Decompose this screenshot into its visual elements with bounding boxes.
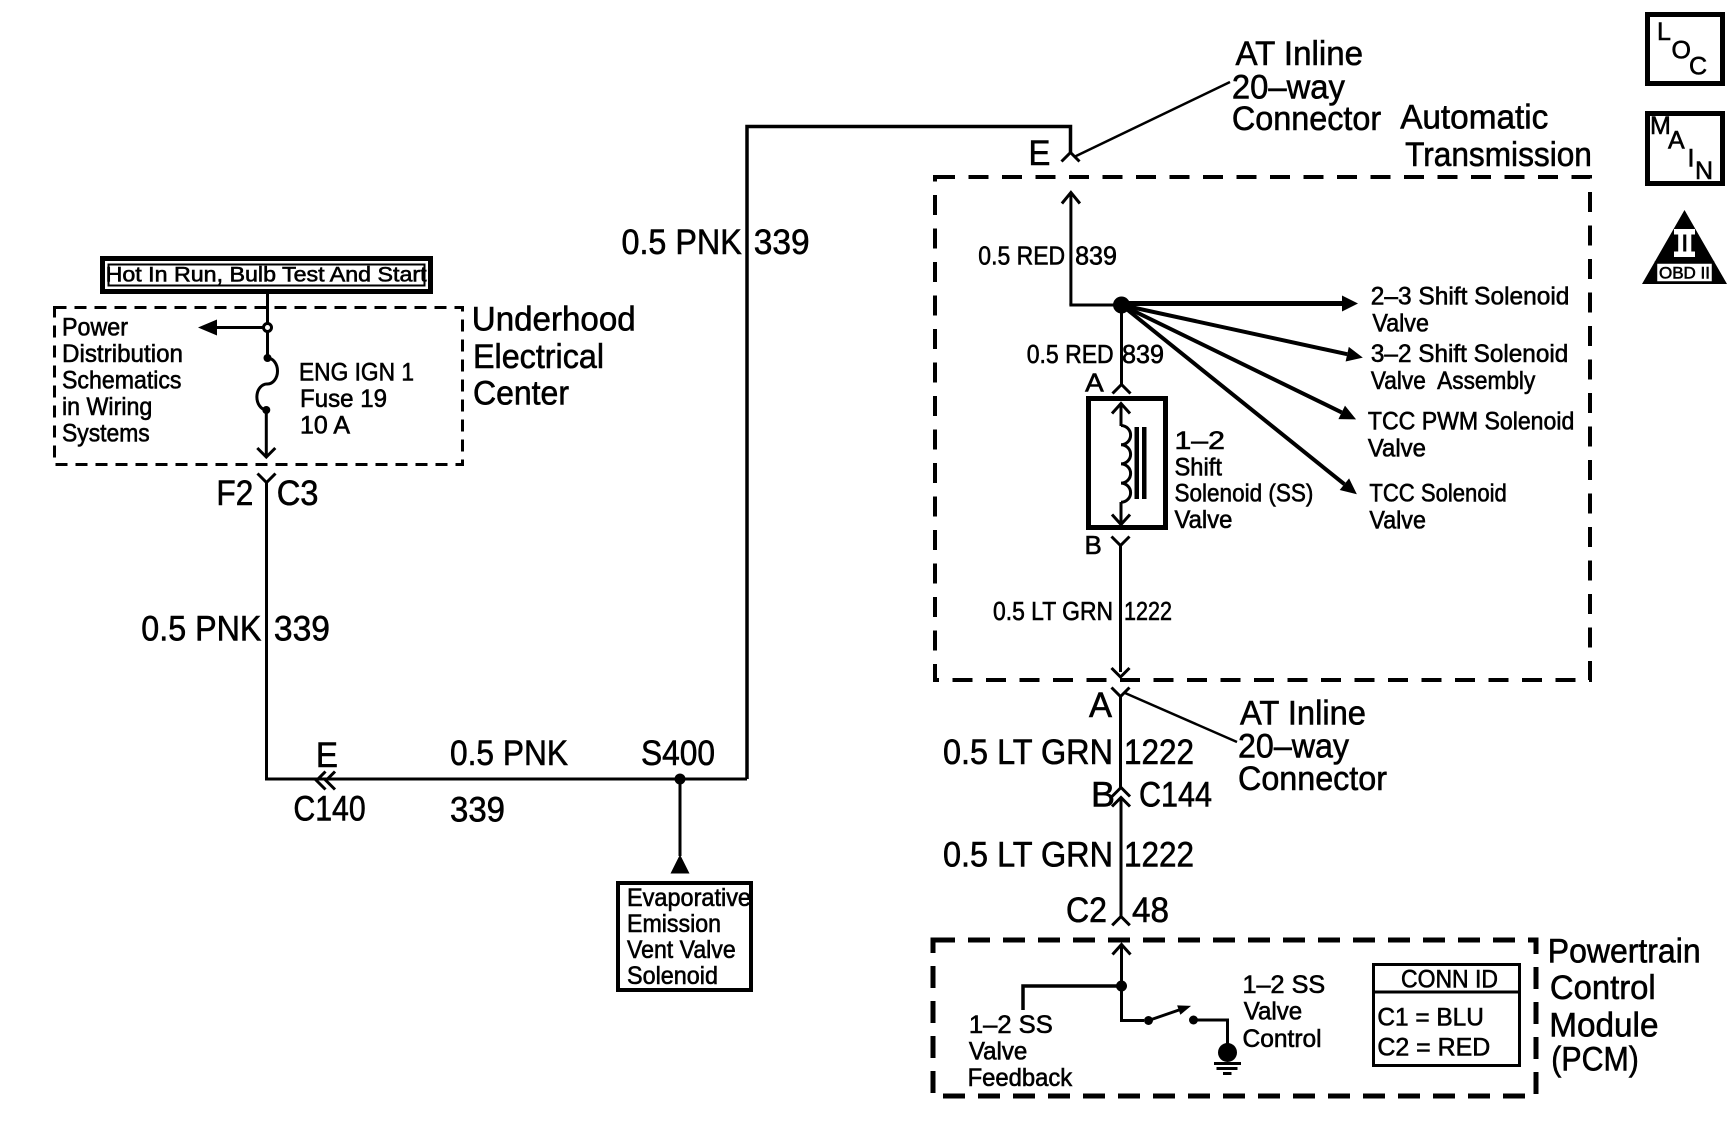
wire [266, 332, 269, 357]
wire F2 down [265, 483, 268, 781]
pin E male terminal arrow [1062, 193, 1080, 306]
fuse ENG IGN 1 Fuse 19 [257, 354, 278, 414]
arrow into vent valve solenoid [671, 855, 690, 874]
svg-text:F2: F2 [216, 474, 253, 513]
wire from C144 down to PCM [1120, 798, 1123, 917]
switch contact node 2 [1189, 1016, 1198, 1025]
horizontal wire to S400 [265, 778, 747, 781]
svg-text:Valve: Valve [1372, 310, 1429, 338]
connector C2 pin 48 female chevron [1112, 917, 1130, 926]
pin A female chevron [1113, 385, 1131, 394]
svg-text:in Wiring: in Wiring [62, 393, 152, 421]
pin B female chevron [1112, 537, 1130, 546]
CONN ID table [1372, 965, 1521, 1066]
arrow at transmission box exit [1112, 668, 1130, 677]
svg-text:CONN ID: CONN ID [1401, 966, 1498, 994]
svg-text:Solenoid: Solenoid [627, 962, 718, 990]
svg-text:Schematics: Schematics [62, 367, 182, 395]
svg-text:1222: 1222 [1124, 733, 1194, 772]
svg-text:L: L [1657, 18, 1671, 46]
svg-text:C: C [1689, 53, 1707, 81]
Power Distribution Schematics note [62, 314, 183, 448]
svg-text:Transmission: Transmission [1405, 136, 1592, 174]
svg-text:A: A [1085, 367, 1104, 397]
svg-text:339: 339 [754, 223, 810, 262]
wire from Hot box [266, 294, 269, 324]
1-2 Shift Solenoid (SS) Valve box [1089, 399, 1166, 528]
svg-text:48: 48 [1132, 891, 1169, 930]
PCM pin 48 male terminal arrow [1113, 945, 1131, 987]
arrow to 2-3 shift solenoid valve [1122, 296, 1359, 312]
svg-text:1–2: 1–2 [1175, 427, 1225, 455]
solenoid terminal arrow up [1112, 404, 1130, 427]
svg-text:Automatic: Automatic [1400, 98, 1548, 136]
Powertrain Control Module (PCM) label [1548, 933, 1701, 1079]
connector C140 pin E chevrons [317, 772, 336, 790]
svg-text:0.5 PNK: 0.5 PNK [141, 610, 261, 649]
Underhood Electrical Center label [472, 301, 636, 413]
svg-text:I: I [1688, 145, 1695, 173]
fuse value label [299, 358, 414, 439]
Automatic Transmission label [1400, 98, 1592, 174]
svg-text:ENG IGN 1: ENG IGN 1 [299, 358, 414, 386]
switch contact node [1144, 1016, 1153, 1025]
1-2 Shift Solenoid (SS) Valve label [1175, 427, 1314, 534]
svg-text:TCC Solenoid: TCC Solenoid [1369, 480, 1506, 508]
wire down to vent valve solenoid [679, 779, 682, 856]
wire 1-2 SS valve feedback [1023, 986, 1122, 1010]
solenoid core bars [1135, 427, 1140, 499]
svg-text:0.5 LT GRN: 0.5 LT GRN [993, 596, 1113, 626]
svg-text:Center: Center [473, 375, 569, 413]
Hot In Run, Bulb Test And Start title box [103, 259, 431, 292]
svg-text:Distribution: Distribution [62, 340, 183, 368]
svg-text:0.5 LT GRN: 0.5 LT GRN [943, 733, 1113, 772]
svg-text:Fuse 19: Fuse 19 [300, 385, 387, 413]
svg-text:Valve Assembly: Valve Assembly [1371, 367, 1536, 395]
svg-text:Valve: Valve [1368, 435, 1426, 463]
wire from S400 run up and over to pin E [747, 127, 1071, 780]
svg-text:Solenoid (SS): Solenoid (SS) [1175, 480, 1314, 508]
ground G1 [1214, 1043, 1241, 1074]
1-2 SS Valve Control label [1243, 971, 1326, 1053]
splice S400 [675, 774, 686, 785]
wire down to switch [1122, 986, 1145, 1021]
svg-text:10 A: 10 A [300, 412, 350, 440]
leader line to AT Inline label [1074, 82, 1230, 157]
node junction to power distribution [264, 324, 272, 332]
wire from switch to ground [1194, 1020, 1228, 1044]
wire with arrow to F2 [257, 410, 275, 457]
svg-text:OBD II: OBD II [1659, 264, 1710, 283]
svg-text:1222: 1222 [1124, 836, 1194, 875]
connector AT inline pin E female chevron [1062, 153, 1080, 162]
LOC legend box [1648, 15, 1723, 84]
svg-text:Electrical: Electrical [473, 338, 604, 376]
svg-text:0.5 PNK: 0.5 PNK [622, 223, 742, 262]
1-2 SS Valve Feedback label [968, 1011, 1073, 1092]
MAIN legend box [1648, 112, 1723, 185]
switch arm with arrow [1147, 1001, 1193, 1025]
svg-text:839: 839 [1122, 339, 1164, 369]
svg-text:1–2 SS: 1–2 SS [1243, 971, 1326, 999]
connector C144 pin B chevrons [1112, 788, 1130, 807]
svg-text:Evaporative: Evaporative [627, 884, 751, 912]
svg-text:Powertrain: Powertrain [1548, 933, 1701, 971]
svg-text:339: 339 [450, 791, 505, 830]
svg-text:0.5 LT GRN: 0.5 LT GRN [943, 836, 1113, 875]
svg-text:N: N [1695, 157, 1713, 185]
junction node [1113, 297, 1130, 314]
svg-text:339: 339 [274, 610, 330, 649]
svg-text:Underhood: Underhood [472, 301, 636, 339]
svg-text:0.5 PNK: 0.5 PNK [450, 734, 568, 773]
svg-text:839: 839 [1075, 241, 1117, 271]
svg-text:0.5 RED: 0.5 RED [1027, 339, 1114, 369]
arrow to 3-2 shift solenoid valve assembly [1120, 298, 1365, 365]
wire from pin B down [1119, 546, 1122, 673]
Evaporative Emission Vent Valve Solenoid box [618, 883, 751, 990]
svg-text:Hot In Run, Bulb Test And Star: Hot In Run, Bulb Test And Start [106, 264, 427, 287]
svg-text:Shift: Shift [1175, 453, 1222, 481]
AT Inline 20-way Connector label (top) [1232, 35, 1381, 138]
svg-text:AT Inline: AT Inline [1236, 35, 1364, 73]
Automatic Transmission dashed box [935, 177, 1590, 680]
svg-text:Power: Power [62, 314, 128, 342]
svg-text:B: B [1085, 530, 1102, 560]
svg-text:2–3 Shift Solenoid: 2–3 Shift Solenoid [1371, 283, 1570, 311]
arrow to TCC solenoid valve [1117, 299, 1362, 500]
Underhood Electrical Center dashed box [55, 308, 463, 465]
solenoid terminal arrow down [1112, 502, 1130, 525]
svg-text:A: A [1668, 127, 1685, 155]
junction node in PCM [1116, 981, 1127, 992]
svg-text:Emission: Emission [627, 910, 721, 938]
svg-text:C1 = BLU: C1 = BLU [1377, 1004, 1484, 1032]
wire from A down to C144 [1119, 697, 1122, 788]
OBD II triangle symbol [1642, 210, 1727, 284]
svg-text:0.5 RED: 0.5 RED [978, 241, 1065, 271]
svg-text:C140: C140 [293, 790, 365, 829]
svg-text:Valve: Valve [969, 1038, 1027, 1066]
Powertrain Control Module dashed box [933, 940, 1536, 1096]
2-3 Shift Solenoid Valve label [1371, 283, 1570, 338]
arrow to power distribution schematics [198, 320, 263, 336]
svg-text:Control: Control [1243, 1025, 1322, 1053]
svg-text:Valve: Valve [1244, 998, 1303, 1026]
connector AT inline pin A female chevron [1112, 688, 1130, 697]
TCC Solenoid Valve label [1369, 480, 1506, 535]
svg-text:Connector: Connector [1238, 760, 1387, 798]
svg-text:3–2 Shift Solenoid: 3–2 Shift Solenoid [1371, 340, 1568, 368]
svg-text:Valve: Valve [1369, 507, 1426, 535]
wire from junction down to pin A [1120, 305, 1123, 385]
svg-text:B: B [1091, 776, 1115, 815]
svg-text:C3: C3 [277, 474, 319, 513]
svg-text:Valve: Valve [1175, 506, 1233, 534]
svg-text:C2 = RED: C2 = RED [1377, 1034, 1490, 1062]
svg-text:1–2 SS: 1–2 SS [969, 1011, 1053, 1039]
svg-text:E: E [1029, 134, 1051, 173]
svg-text:E: E [316, 736, 338, 775]
svg-text:(PCM): (PCM) [1551, 1041, 1639, 1079]
arrow to TCC PWM solenoid valve [1118, 298, 1359, 426]
connector C3 pin F2 [258, 474, 276, 483]
svg-text:C144: C144 [1139, 776, 1212, 815]
leader line to AT Inline label (bottom) [1125, 693, 1237, 742]
TCC PWM Solenoid Valve label [1368, 408, 1574, 463]
svg-text:Systems: Systems [62, 420, 150, 448]
3-2 Shift Solenoid Valve Assembly label [1371, 340, 1568, 395]
svg-text:TCC PWM Solenoid: TCC PWM Solenoid [1368, 408, 1574, 436]
svg-text:S400: S400 [641, 734, 715, 773]
svg-text:Connector: Connector [1232, 100, 1381, 138]
solenoid coil [1121, 426, 1131, 503]
wire to junction [1069, 304, 1121, 307]
svg-text:1222: 1222 [1124, 596, 1172, 626]
svg-text:Control: Control [1550, 969, 1656, 1007]
svg-text:C2: C2 [1066, 891, 1107, 930]
svg-text:Feedback: Feedback [968, 1064, 1073, 1092]
svg-text:A: A [1089, 686, 1113, 725]
AT Inline 20-way Connector label (bottom) [1238, 695, 1387, 798]
svg-text:Module: Module [1549, 1007, 1658, 1045]
svg-text:Vent Valve: Vent Valve [627, 936, 736, 964]
